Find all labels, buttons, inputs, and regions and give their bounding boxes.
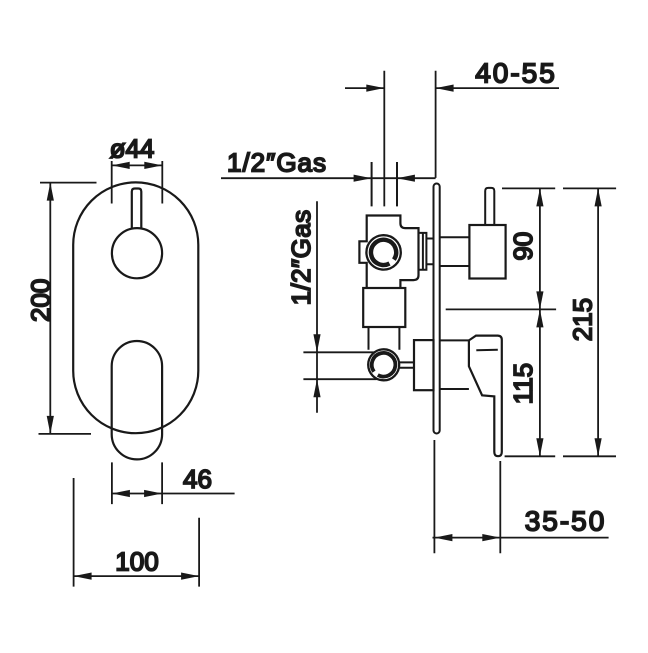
lower port thick ring <box>372 353 396 377</box>
neck lines <box>369 327 400 350</box>
lever handle (front view) <box>112 341 162 459</box>
svg-text:200: 200 <box>25 279 55 322</box>
dimension 1/2"Gas (side connection) <box>303 201 376 412</box>
lever crease line <box>476 349 498 352</box>
dimension 1/2"Gas (top) <box>221 177 436 179</box>
svg-text:35-50: 35-50 <box>525 506 607 537</box>
upper port outer circle <box>366 235 400 269</box>
svg-text:115: 115 <box>508 363 538 404</box>
lever handle (side view) <box>469 336 502 457</box>
mounting plate (side view) <box>434 184 440 434</box>
svg-text:1/2″Gas: 1/2″Gas <box>227 148 327 178</box>
dimension 46 <box>112 462 235 504</box>
top connection flange <box>419 233 434 270</box>
lower outlet connector lines <box>399 362 414 367</box>
dimension ø44 <box>112 161 163 204</box>
lever hub lines <box>440 340 469 389</box>
dimension 215 <box>597 188 599 456</box>
valve body (side view) <box>359 216 418 289</box>
body lower column <box>363 288 405 327</box>
svg-text:90: 90 <box>508 232 538 261</box>
diverter knob hub lines <box>440 237 470 266</box>
reference tick bottom <box>505 455 616 457</box>
dimension 200 <box>39 183 97 434</box>
inlet pipe lines <box>372 162 397 206</box>
dimension 40-55 <box>345 71 559 207</box>
handle stem (front view) <box>132 189 142 229</box>
reference tick middle <box>446 308 556 310</box>
diverter knob block <box>469 225 505 279</box>
svg-text:40-55: 40-55 <box>475 58 557 89</box>
wall plate (front view) <box>73 182 198 433</box>
dimension 35-50 <box>433 440 609 553</box>
lower port outer circle <box>368 349 399 380</box>
svg-text:215: 215 <box>568 298 598 341</box>
handle knob (front view) <box>112 228 162 278</box>
svg-text:1/2″Gas: 1/2″Gas <box>286 209 316 305</box>
svg-text:100: 100 <box>115 547 158 577</box>
reference tick top <box>502 187 616 189</box>
dimension 115 <box>539 309 541 456</box>
dimension 100 <box>74 478 200 587</box>
lower outlet block <box>414 340 434 390</box>
svg-text:ø44: ø44 <box>110 134 155 164</box>
svg-text:46: 46 <box>183 464 212 494</box>
diverter knob stem <box>485 188 494 225</box>
dimension 90 <box>539 188 541 309</box>
upper port thick ring <box>371 240 396 265</box>
